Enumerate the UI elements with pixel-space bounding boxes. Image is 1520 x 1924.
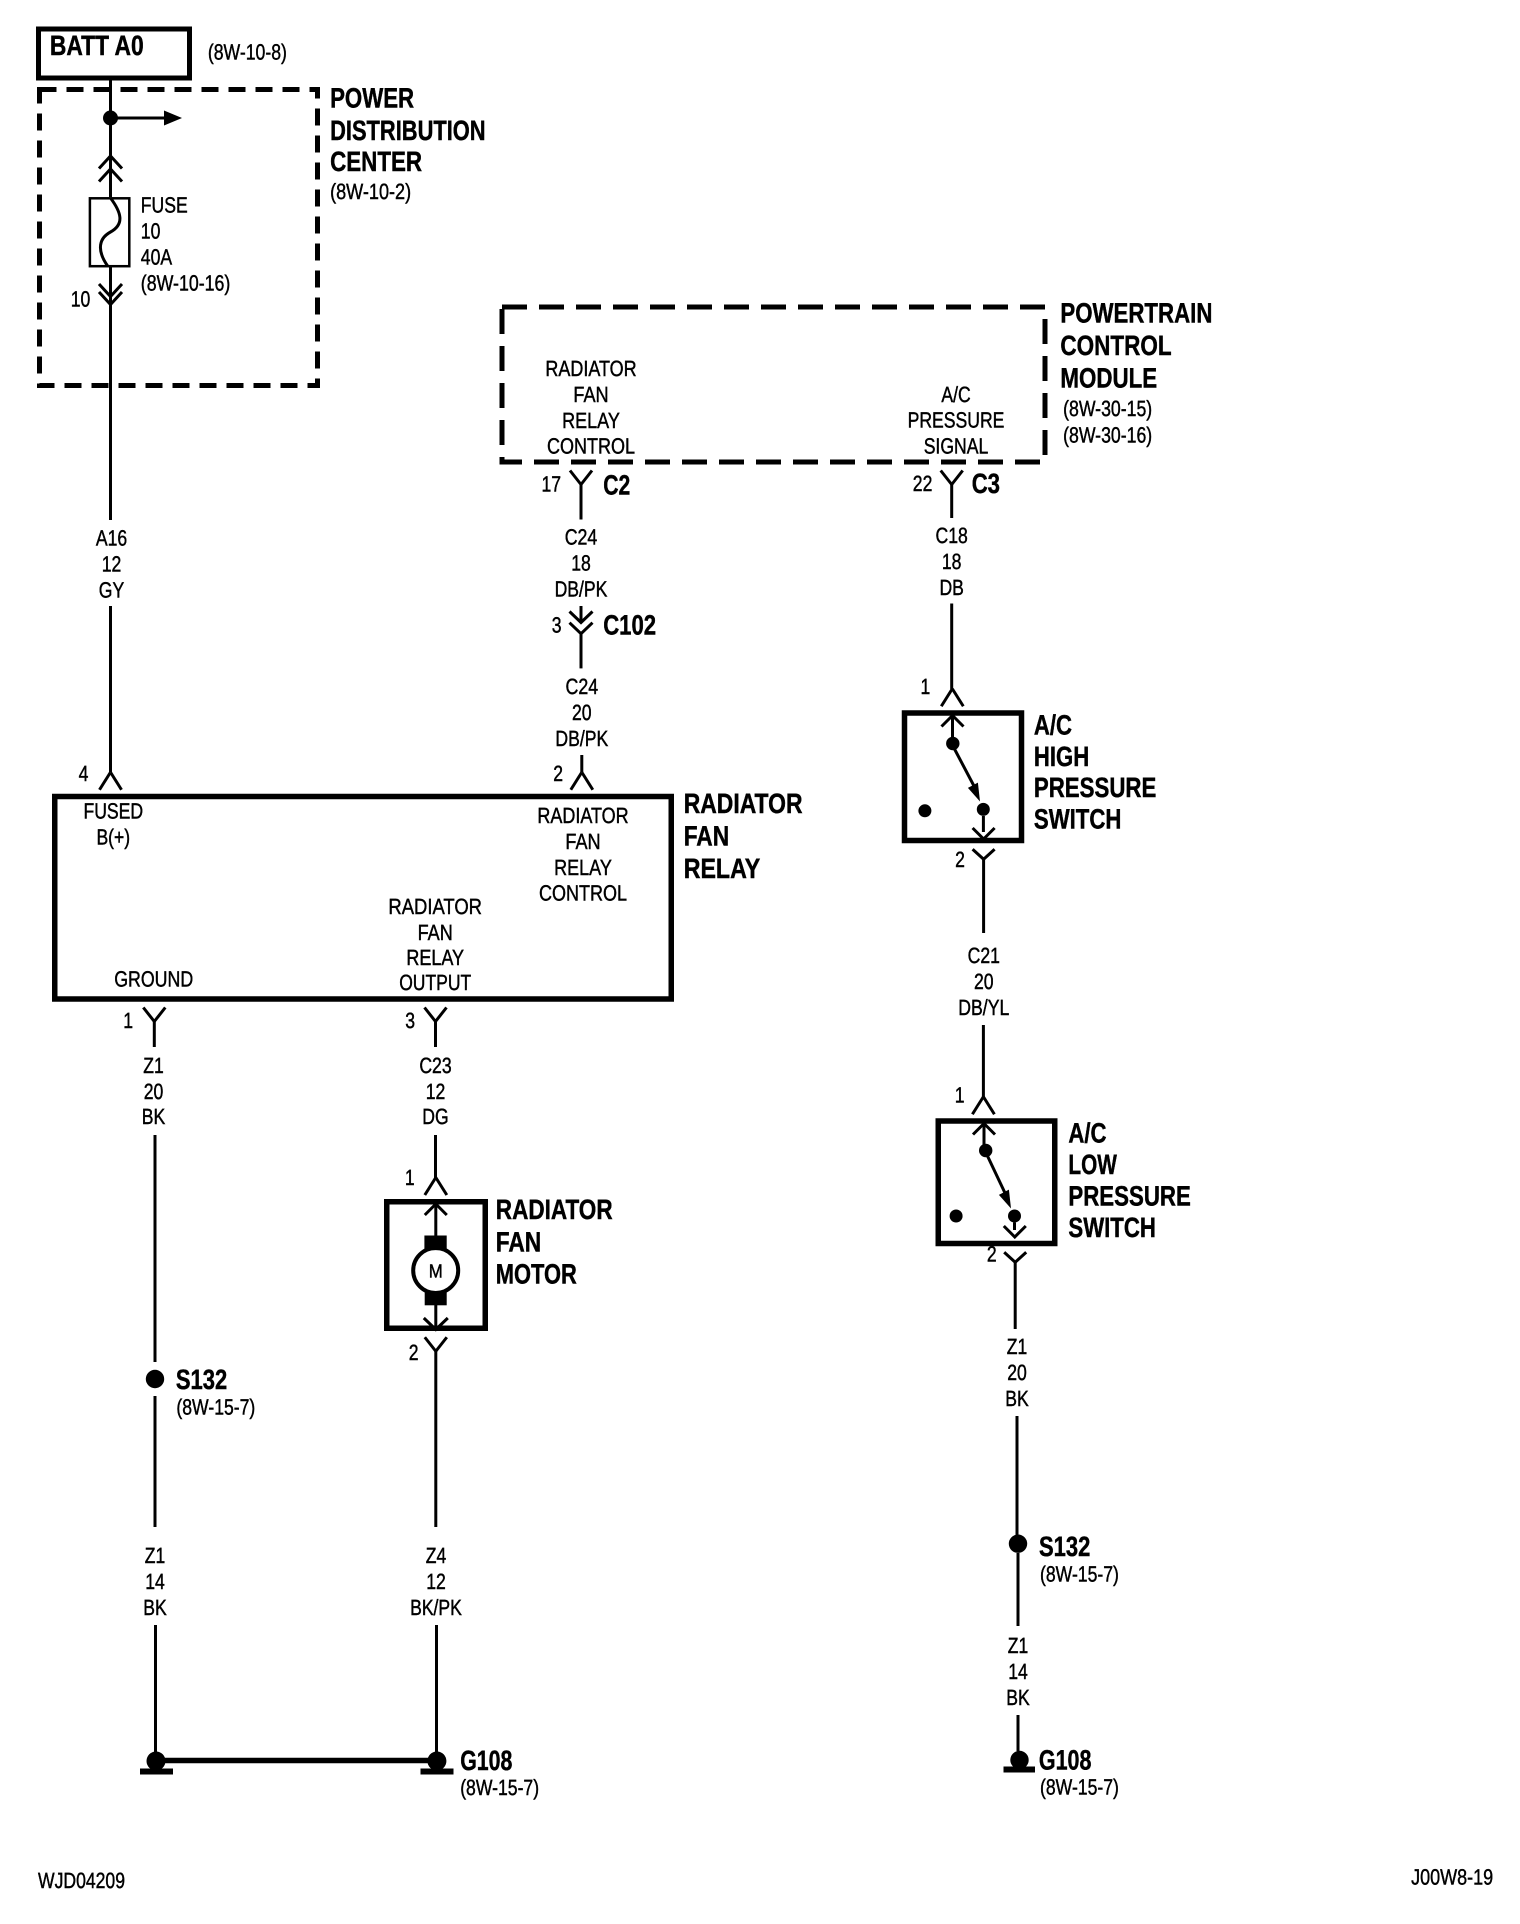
- svg-text:3: 3: [552, 613, 562, 638]
- svg-text:CENTER: CENTER: [330, 146, 422, 177]
- svg-text:B(+): B(+): [96, 824, 130, 849]
- svg-text:A/C: A/C: [1068, 1118, 1106, 1149]
- svg-text:1: 1: [955, 1083, 965, 1108]
- svg-text:18: 18: [571, 551, 591, 576]
- svg-text:DISTRIBUTION: DISTRIBUTION: [330, 115, 486, 146]
- svg-text:GY: GY: [99, 578, 125, 603]
- svg-text:(8W-30-15): (8W-30-15): [1063, 396, 1152, 421]
- svg-text:14: 14: [145, 1569, 165, 1594]
- svg-text:(8W-15-7): (8W-15-7): [1040, 1775, 1119, 1800]
- svg-text:BATT A0: BATT A0: [50, 30, 144, 61]
- svg-text:20: 20: [572, 700, 592, 725]
- svg-text:(8W-15-7): (8W-15-7): [460, 1775, 539, 1800]
- svg-text:A16: A16: [96, 526, 127, 551]
- svg-text:CONTROL: CONTROL: [1060, 330, 1171, 361]
- svg-text:DB/PK: DB/PK: [555, 726, 608, 751]
- svg-text:12: 12: [102, 552, 122, 577]
- svg-text:GROUND: GROUND: [114, 966, 193, 991]
- svg-text:12: 12: [426, 1569, 446, 1594]
- svg-text:1: 1: [405, 1165, 415, 1190]
- svg-text:(8W-30-16): (8W-30-16): [1063, 423, 1152, 448]
- svg-text:2: 2: [987, 1242, 997, 1267]
- svg-text:FAN: FAN: [573, 382, 608, 407]
- svg-text:C24: C24: [566, 674, 599, 699]
- svg-text:HIGH: HIGH: [1034, 741, 1089, 772]
- svg-text:FAN: FAN: [496, 1226, 541, 1257]
- svg-text:LOW: LOW: [1068, 1149, 1117, 1180]
- svg-text:PRESSURE: PRESSURE: [908, 408, 1005, 433]
- svg-text:1: 1: [921, 674, 931, 699]
- svg-text:C2: C2: [603, 470, 630, 501]
- svg-text:3: 3: [405, 1008, 415, 1033]
- svg-text:CONTROL: CONTROL: [539, 881, 627, 906]
- svg-text:G108: G108: [1039, 1745, 1092, 1776]
- svg-text:Z1: Z1: [1008, 1633, 1029, 1658]
- svg-text:SWITCH: SWITCH: [1034, 804, 1122, 835]
- svg-text:14: 14: [1008, 1659, 1028, 1684]
- svg-text:Z1: Z1: [1007, 1334, 1028, 1359]
- svg-text:DB/YL: DB/YL: [958, 995, 1009, 1020]
- svg-text:(8W-15-7): (8W-15-7): [176, 1395, 255, 1420]
- svg-text:MOTOR: MOTOR: [496, 1259, 577, 1290]
- svg-text:BK/PK: BK/PK: [410, 1595, 462, 1620]
- svg-text:20: 20: [1007, 1360, 1027, 1385]
- svg-text:OUTPUT: OUTPUT: [399, 970, 471, 995]
- svg-text:12: 12: [426, 1079, 446, 1104]
- svg-text:PRESSURE: PRESSURE: [1068, 1181, 1190, 1212]
- svg-text:CONTROL: CONTROL: [547, 433, 635, 458]
- svg-text:PRESSURE: PRESSURE: [1034, 772, 1156, 803]
- svg-text:Z1: Z1: [145, 1543, 166, 1568]
- svg-text:18: 18: [942, 549, 962, 574]
- svg-text:BK: BK: [143, 1595, 167, 1620]
- svg-text:A/C: A/C: [941, 382, 970, 407]
- svg-text:2: 2: [409, 1340, 419, 1365]
- svg-text:17: 17: [542, 472, 562, 497]
- svg-text:S132: S132: [1039, 1531, 1090, 1562]
- svg-text:BK: BK: [1006, 1685, 1030, 1710]
- svg-text:BK: BK: [142, 1104, 166, 1129]
- svg-text:2: 2: [955, 847, 965, 872]
- svg-text:C24: C24: [565, 525, 598, 550]
- svg-text:FUSED: FUSED: [83, 798, 143, 823]
- svg-text:RADIATOR: RADIATOR: [496, 1194, 613, 1225]
- svg-text:MODULE: MODULE: [1060, 363, 1157, 394]
- svg-text:FAN: FAN: [418, 920, 453, 945]
- svg-text:RELAY: RELAY: [406, 945, 464, 970]
- svg-text:20: 20: [974, 969, 994, 994]
- svg-text:(8W-15-7): (8W-15-7): [1040, 1562, 1119, 1587]
- svg-text:RADIATOR: RADIATOR: [537, 803, 628, 828]
- svg-text:(8W-10-16): (8W-10-16): [141, 271, 231, 296]
- svg-text:C18: C18: [936, 523, 968, 548]
- svg-text:22: 22: [913, 471, 933, 496]
- svg-text:20: 20: [144, 1079, 164, 1104]
- svg-text:2: 2: [553, 761, 563, 786]
- svg-text:C21: C21: [968, 943, 1000, 968]
- svg-text:SWITCH: SWITCH: [1068, 1212, 1156, 1243]
- svg-text:Z4: Z4: [426, 1543, 447, 1568]
- svg-text:WJD04209: WJD04209: [38, 1868, 125, 1893]
- svg-text:C102: C102: [603, 610, 656, 641]
- svg-text:SIGNAL: SIGNAL: [924, 433, 989, 458]
- svg-text:10: 10: [141, 219, 161, 244]
- svg-text:DB: DB: [940, 575, 964, 600]
- svg-text:4: 4: [79, 761, 89, 786]
- svg-text:S132: S132: [176, 1364, 227, 1395]
- svg-text:M: M: [429, 1262, 443, 1283]
- svg-text:J00W8-19: J00W8-19: [1411, 1865, 1493, 1890]
- svg-text:(8W-10-8): (8W-10-8): [208, 40, 287, 65]
- svg-text:RELAY: RELAY: [562, 408, 620, 433]
- svg-text:Z1: Z1: [143, 1053, 164, 1078]
- svg-text:(8W-10-2): (8W-10-2): [330, 179, 411, 204]
- svg-text:40A: 40A: [141, 245, 173, 270]
- svg-text:FAN: FAN: [565, 829, 600, 854]
- svg-text:FAN: FAN: [684, 821, 729, 852]
- svg-text:C23: C23: [419, 1053, 451, 1078]
- svg-text:C3: C3: [972, 468, 1000, 499]
- svg-text:RADIATOR: RADIATOR: [684, 788, 803, 819]
- svg-text:10: 10: [71, 287, 91, 312]
- svg-text:POWER: POWER: [330, 83, 414, 114]
- svg-text:RELAY: RELAY: [554, 855, 612, 880]
- svg-text:A/C: A/C: [1034, 709, 1072, 740]
- svg-text:BK: BK: [1005, 1386, 1029, 1411]
- svg-text:DB/PK: DB/PK: [555, 577, 608, 602]
- svg-text:RELAY: RELAY: [684, 853, 761, 884]
- svg-text:FUSE: FUSE: [141, 193, 188, 218]
- svg-text:1: 1: [123, 1008, 133, 1033]
- svg-text:G108: G108: [460, 1745, 512, 1776]
- svg-text:DG: DG: [422, 1104, 448, 1129]
- svg-text:RADIATOR: RADIATOR: [545, 356, 636, 381]
- svg-text:RADIATOR: RADIATOR: [388, 894, 482, 919]
- svg-text:POWERTRAIN: POWERTRAIN: [1060, 297, 1212, 328]
